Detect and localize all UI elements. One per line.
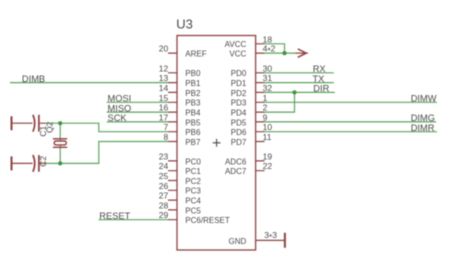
svg-text:ADC7: ADC7 [225, 167, 247, 176]
svg-text:PC3: PC3 [185, 187, 201, 196]
svg-text:16: 16 [159, 103, 169, 113]
svg-text:2: 2 [263, 103, 268, 113]
svg-text:PC6/RESET: PC6/RESET [185, 216, 230, 225]
svg-text:PB6: PB6 [185, 128, 201, 137]
svg-text:10: 10 [263, 122, 273, 132]
svg-text:31: 31 [263, 73, 273, 83]
svg-text:RESET: RESET [99, 211, 130, 221]
svg-text:RX: RX [313, 64, 326, 74]
svg-text:26: 26 [159, 181, 169, 191]
svg-text:PB5: PB5 [185, 118, 201, 127]
svg-text:PB4: PB4 [185, 109, 201, 118]
svg-text:9: 9 [263, 112, 268, 122]
svg-text:PC2: PC2 [185, 177, 201, 186]
svg-text:DIMW: DIMW [411, 94, 437, 104]
svg-text:29: 29 [159, 210, 169, 220]
svg-text:30: 30 [263, 63, 273, 73]
svg-text:DIMG: DIMG [411, 113, 435, 123]
svg-text:32: 32 [263, 83, 273, 93]
svg-text:TX: TX [313, 74, 325, 84]
svg-text:7: 7 [163, 122, 168, 132]
svg-text:14: 14 [159, 83, 169, 93]
svg-text:PD2: PD2 [231, 89, 247, 98]
svg-text:GND: GND [229, 237, 247, 246]
svg-text:PD5: PD5 [231, 118, 247, 127]
svg-text:SCK: SCK [108, 113, 128, 123]
svg-text:1: 1 [263, 93, 268, 103]
svg-text:PB0: PB0 [185, 69, 201, 78]
svg-text:U3: U3 [176, 17, 193, 32]
svg-text:PD0: PD0 [231, 69, 247, 78]
svg-text:PB7: PB7 [185, 138, 201, 147]
svg-text:PC1: PC1 [185, 167, 201, 176]
svg-text:MOSI: MOSI [108, 94, 132, 104]
svg-text:19: 19 [263, 151, 273, 161]
svg-text:15: 15 [159, 93, 169, 103]
svg-text:PD4: PD4 [231, 109, 247, 118]
svg-text:11: 11 [263, 132, 272, 142]
svg-text:23: 23 [159, 151, 169, 161]
svg-text:PD3: PD3 [231, 99, 247, 108]
svg-text:PC0: PC0 [185, 157, 201, 166]
svg-text:AVCC: AVCC [225, 40, 247, 49]
svg-text:PC4: PC4 [185, 197, 201, 206]
svg-text:ADC6: ADC6 [225, 157, 247, 166]
svg-text:VCC: VCC [229, 50, 246, 59]
svg-text:25: 25 [159, 171, 169, 181]
svg-text:PB2: PB2 [185, 89, 201, 98]
svg-text:13: 13 [159, 73, 169, 83]
svg-text:C2: C2 [38, 156, 48, 167]
svg-text:22: 22 [263, 161, 273, 171]
svg-text:PD6: PD6 [231, 128, 247, 137]
svg-text:PB1: PB1 [185, 79, 201, 88]
svg-text:DIMB: DIMB [22, 74, 45, 84]
svg-text:12: 12 [159, 63, 169, 73]
svg-text:AREF: AREF [185, 50, 206, 59]
svg-text:PB3: PB3 [185, 99, 201, 108]
svg-text:PC5: PC5 [185, 206, 201, 215]
svg-text:Q2: Q2 [45, 121, 55, 133]
svg-text:DIR: DIR [313, 84, 329, 94]
svg-text:28: 28 [159, 200, 169, 210]
svg-text:DIMR: DIMR [411, 123, 435, 133]
svg-text:27: 27 [159, 191, 169, 201]
svg-text:PD7: PD7 [231, 138, 247, 147]
svg-text:17: 17 [159, 112, 169, 122]
svg-text:24: 24 [159, 161, 169, 171]
svg-text:8: 8 [163, 132, 168, 142]
svg-text:PD1: PD1 [231, 79, 247, 88]
svg-text:20: 20 [159, 44, 169, 54]
svg-text:MISO: MISO [108, 103, 132, 113]
